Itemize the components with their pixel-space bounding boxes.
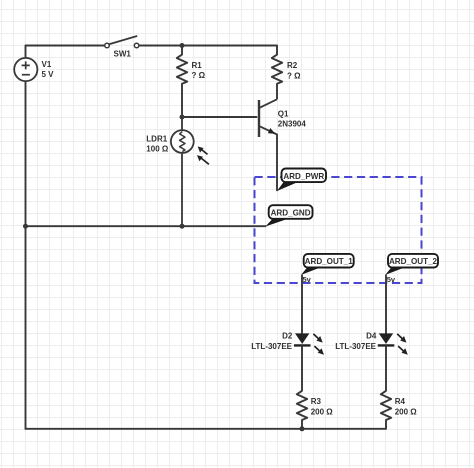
label R3 200 ohm bbox=[311, 397, 334, 416]
svg-text:LDR1: LDR1 bbox=[146, 134, 167, 143]
resistor R3 bbox=[297, 345, 307, 428]
svg-text:? Ω: ? Ω bbox=[192, 71, 206, 80]
transistor Q1 bbox=[259, 99, 277, 137]
switch SW1 bbox=[105, 36, 139, 48]
svg-text:LTL-307EE: LTL-307EE bbox=[335, 342, 376, 351]
wire emitter to ARD_PWR bbox=[276, 135, 278, 191]
svg-text:R4: R4 bbox=[395, 397, 406, 406]
svg-text:ARD_PWR: ARD_PWR bbox=[283, 172, 324, 181]
net flag ARD_GND bbox=[265, 205, 312, 226]
wire ARD_OUT_1 to D2 bbox=[301, 275, 303, 334]
junction left rail ground bbox=[23, 224, 28, 229]
svg-text:ARD_OUT_1: ARD_OUT_1 bbox=[305, 257, 354, 266]
svg-text:D2: D2 bbox=[282, 332, 293, 341]
svg-text:? Ω: ? Ω bbox=[287, 72, 301, 81]
svg-text:R3: R3 bbox=[311, 397, 322, 406]
svg-text:V1: V1 bbox=[42, 60, 52, 69]
LDR1 light arrows bbox=[197, 146, 209, 164]
junction R3 bottom rail bbox=[300, 426, 305, 431]
wire R1 to Q1 base bbox=[182, 116, 257, 118]
svg-text:5 V: 5 V bbox=[42, 70, 55, 79]
svg-text:D4: D4 bbox=[366, 332, 377, 341]
Arduino boundary dashed box bbox=[255, 177, 422, 283]
svg-text:SW1: SW1 bbox=[114, 50, 132, 59]
label LDR1 100 ohm bbox=[146, 134, 169, 153]
label D4 LTL-307EE bbox=[335, 332, 377, 351]
svg-text:ARD_OUT_2: ARD_OUT_2 bbox=[389, 257, 438, 266]
wire switch to R2 bbox=[139, 45, 277, 47]
svg-text:R1: R1 bbox=[192, 61, 203, 70]
resistor R2 bbox=[272, 46, 282, 100]
svg-text:200 Ω: 200 Ω bbox=[311, 407, 334, 416]
svg-text:5v: 5v bbox=[387, 275, 396, 284]
voltage source V1 bbox=[14, 58, 37, 81]
junction top of R1 bbox=[180, 43, 185, 48]
svg-text:100 Ω: 100 Ω bbox=[146, 144, 169, 153]
label R2 ? ohm bbox=[287, 61, 301, 80]
wire ARD_OUT_2 to D4 bbox=[385, 275, 387, 334]
svg-text:5v: 5v bbox=[303, 275, 312, 284]
resistor R4 bbox=[381, 345, 391, 428]
wire top rail bbox=[26, 46, 105, 58]
junction LDR to ground rail bbox=[180, 224, 185, 229]
wire left rail bbox=[25, 81, 27, 429]
LED D4 bbox=[378, 333, 395, 345]
wire bottom rail bbox=[26, 428, 387, 430]
label R4 200 ohm bbox=[395, 397, 418, 416]
net flag ARD_OUT_2 bbox=[385, 254, 438, 284]
label D2 LTL-307EE bbox=[251, 332, 293, 351]
D4 light arrows bbox=[397, 334, 408, 355]
svg-text:LTL-307EE: LTL-307EE bbox=[251, 342, 292, 351]
net flag ARD_PWR bbox=[277, 169, 326, 192]
net flag ARD_OUT_1 bbox=[301, 254, 354, 284]
junction R1 base node bbox=[180, 115, 185, 120]
label V1 5 V bbox=[42, 60, 55, 79]
resistor R1 bbox=[177, 46, 187, 118]
D2 light arrows bbox=[313, 334, 324, 355]
LED D2 bbox=[294, 333, 311, 345]
svg-text:ARD_GND: ARD_GND bbox=[271, 209, 311, 218]
svg-text:2N3904: 2N3904 bbox=[278, 120, 307, 129]
svg-text:200 Ω: 200 Ω bbox=[395, 407, 418, 416]
photoresistor LDR1 bbox=[171, 117, 194, 226]
wire ground rail bbox=[26, 225, 266, 227]
label Q1 2N3904 bbox=[278, 110, 307, 129]
label R1 ? ohm bbox=[192, 61, 206, 80]
svg-text:Q1: Q1 bbox=[278, 110, 289, 119]
svg-text:R2: R2 bbox=[287, 61, 298, 70]
